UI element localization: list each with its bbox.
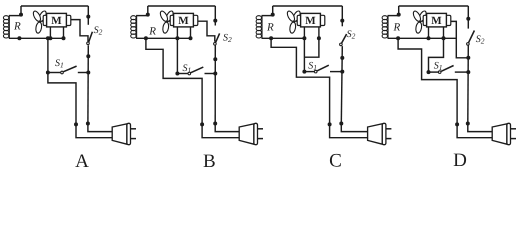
wire: lower prong lead [330,124,368,137]
wire: bottom wire (ends at left leg) [262,37,305,39]
wire: drop from top wire to R top node [398,6,400,16]
fan (3-blade propeller on motor shaft) [159,10,175,34]
wire: right vertical from top wire to S2 contact [214,6,216,26]
node: lower prong dot [74,122,78,126]
wire: top wire [21,5,88,7]
resistor R (heating coil) [382,16,388,39]
svg-text:D: D [453,150,467,169]
svg-text:C: C [329,150,342,169]
motor M body with end caps [423,13,451,27]
motor M body with end caps [297,13,325,27]
wire: left leg extension down to S1 [303,38,305,71]
switch S2 blade [469,31,475,43]
switch S2 blade [89,32,93,42]
node: left leg junction dot [48,36,52,40]
switch S1 pivot [438,71,441,74]
node: right leg junction dot [62,36,66,40]
svg-text:S2: S2 [223,33,232,45]
wire: staircase from R bottom to lower prong [146,38,202,124]
node: left leg junction dot [302,36,306,40]
wire: right vertical below S2 pivot [341,46,342,123]
svg-text:S2: S2 [347,29,356,41]
wire: bottom wire (R bottom to motor legs) [9,37,64,39]
wire: right vertical below S2 pivot [467,46,470,124]
svg-text:S1: S1 [55,58,64,70]
wire: upper prong lead [468,124,492,132]
plug (power plug symbol) [368,123,392,144]
wire: S1 feed from bottom wire [47,38,49,72]
wire: S1 fixed contact lead to right vertical [455,71,469,73]
wire: upper prong lead [341,124,367,132]
svg-text:M: M [305,15,316,27]
switch S2 pivot [340,43,343,46]
wire: top wire [399,5,469,7]
node: R top junction dot [271,13,275,17]
svg-text:R: R [148,25,156,37]
wire: S1 left lead [177,73,187,75]
wire: R top stub [388,15,399,17]
wire: S1 left lead [304,71,314,73]
wire: lower prong lead [76,124,112,137]
node: S1 right dot [213,72,217,76]
wire: upper prong lead [88,124,112,132]
node: S1 right dot [466,70,470,74]
fan (3-blade propeller on motor shaft) [32,10,48,34]
node: lower prong dot [455,122,459,126]
switch S1 pivot [188,72,191,75]
switch S2 blade [216,33,220,42]
wire: S1 left lead [48,72,61,74]
node: S1 left dot [46,71,50,75]
node: left leg junction dot [175,36,179,40]
node: right leg junction dot [442,36,446,40]
wire: bottom wire (extends right past legs) [388,37,457,39]
switch S2 pivot [467,43,470,46]
svg-text:R: R [13,20,21,32]
motor support legs [176,27,178,38]
svg-text:S1: S1 [183,63,192,75]
wire: upper prong lead [215,124,239,132]
node: upper prong dot [466,122,470,126]
wire: motor terminal to S2 pivot [198,21,215,42]
node: S1 left dot [302,70,306,74]
node: upper prong dot [213,122,217,126]
node: R bottom dot [396,36,400,40]
svg-text:S2: S2 [476,34,485,46]
wire: staircase from R bottom to lower prong [398,38,457,124]
wire: drop from top wire to R top node [20,6,22,16]
wire: right vertical from top wire to S2 contact [87,6,89,25]
node: left leg junction dot [427,36,431,40]
motor support legs [303,27,305,38]
node: R bottom dot [17,36,21,40]
wire: staircase from R bottom to lower prong [271,38,330,124]
node: junction dot below S2 [86,54,90,58]
wire: motor terminal to S2 pivot [71,20,88,42]
switch S1 blade [441,66,453,72]
node: S1 right dot [340,70,344,74]
wire: right vertical below S2 pivot [214,46,216,124]
wire: drop from top wire to R top node [147,6,149,16]
wire: S1 left node down to lower prong [48,73,76,125]
resistor R (heating coil) [131,16,137,39]
node: junction dot below S2 [213,57,217,61]
wire: lower prong lead [457,124,492,137]
node: S2 fixed contact dot [213,19,217,23]
svg-text:A: A [75,151,89,169]
node: R top junction dot [19,13,23,17]
resistor R (heating coil) [256,16,262,39]
wire: S1 fixed contact lead to right vertical [78,72,89,74]
switch S1 pivot [61,71,64,74]
wire: top wire [273,5,343,7]
node: junction dot below S2 (motor wire joins) [466,56,470,60]
svg-text:S1: S1 [308,61,317,73]
switch S1 blade [64,66,77,72]
switch S2 blade [342,34,347,43]
node: R bottom dot [144,36,148,40]
wire: S1 fixed contact lead to right vertical [330,71,342,73]
motor M body with end caps [43,13,71,27]
wire: S1 left lead [429,71,439,73]
node: S1 right dot [86,71,90,75]
wire: S1 fixed contact lead to right vertical [205,73,216,75]
wire: R top stub [136,15,148,17]
svg-text:S2: S2 [94,25,103,37]
node: junction dot below S2 [340,56,344,60]
switch S2 pivot [214,43,217,46]
node: S2 fixed contact dot [340,19,344,23]
svg-text:R: R [393,21,401,33]
wire: R top stub [9,15,21,17]
wire: R top stub [262,15,273,17]
node: right leg junction dot [189,36,193,40]
fan (3-blade propeller on motor shaft) [412,10,428,34]
node: upper prong dot [339,122,343,126]
wire: right leg extension and jog to S1 feed [304,38,319,57]
node: R top junction dot [397,13,401,17]
node: S2 fixed contact dot [466,17,470,21]
wire: right vertical from top wire to S2 contact [341,6,343,26]
svg-text:M: M [51,15,62,27]
plug (power plug symbol) [239,123,263,144]
switch S1 blade [191,67,204,73]
svg-text:M: M [178,15,189,27]
svg-text:R: R [266,21,274,33]
svg-text:B: B [203,151,216,169]
node: S2 fixed contact dot [86,15,90,19]
wire: motor terminal down and to junction below S2 [451,21,469,57]
node: lower prong dot [200,122,204,126]
plug (power plug symbol) [112,123,136,144]
resistor R (heating coil) [3,16,9,39]
switch S2 pivot [87,42,90,45]
wire: bottom wire [136,37,190,39]
svg-text:M: M [431,15,442,27]
motor support legs [428,27,430,38]
wire: S1 feed from left motor leg [176,38,178,73]
switch S1 blade [317,65,329,71]
node: upper prong dot [86,122,90,126]
node: R top junction dot [146,13,150,17]
wire: drop from top wire to R top node [272,6,274,16]
motor M body with end caps [170,13,198,27]
wire: lower prong lead [202,124,239,137]
node: bottom wire / S1 feed dot [46,36,50,40]
svg-text:S1: S1 [434,61,443,73]
node: right leg junction dot [317,36,321,40]
plug (power plug symbol) [492,123,516,144]
wire: right vertical below S2 pivot [87,45,89,123]
node: S1 left dot [427,70,431,74]
fan (3-blade propeller on motor shaft) [286,10,302,34]
motor support legs [49,27,51,38]
switch S1 pivot [314,70,317,73]
wire: right leg extension and jog down to S1 [429,38,444,72]
wire: top wire [148,5,216,7]
node: lower prong dot [328,122,332,126]
node: S1 left dot [175,72,179,76]
wire: right vertical from top wire to S2 contact [467,6,469,29]
node: R bottom dot [269,36,273,40]
